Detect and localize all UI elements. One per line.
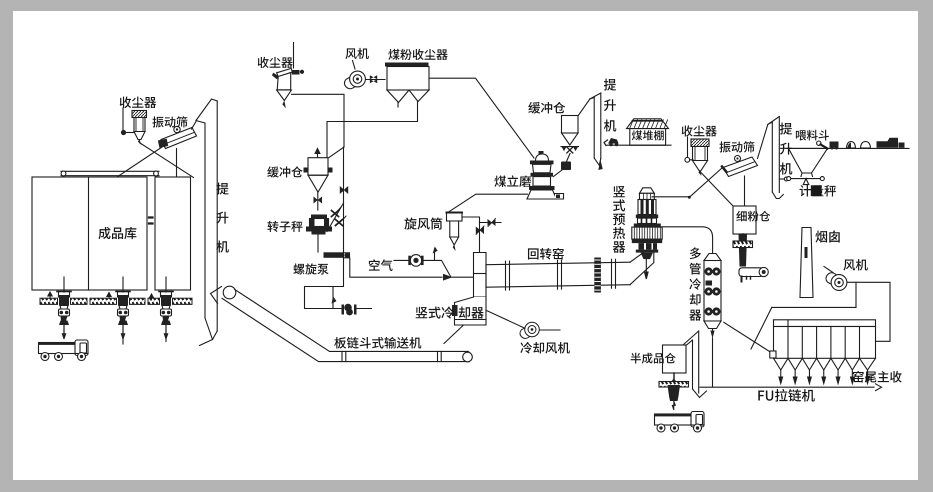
silo top bridge conveyor [61,171,159,175]
truck T2 [655,412,705,433]
cyclone inlet from mill base [447,194,528,213]
MF outlet to mill (right side) [429,78,534,158]
dust collector DC1 [132,111,147,118]
kiln-tail bag filter 窑尾主收 [774,320,876,327]
kiln girth gear [594,258,601,293]
buffer bin 缓冲仓2 [562,116,579,134]
weigh scale 计量秤 [787,178,824,180]
filter inlet box [770,351,776,358]
coal shed 煤堆棚 [627,119,669,129]
dust collector DC3 [691,139,709,147]
screen feed chute from elevator [192,122,197,130]
kiln feed spout+arrow [645,259,649,279]
bypass line with flap valves [343,147,345,253]
vent arrow above bin [315,149,320,158]
vertical preheater 竖式预热器 [640,188,655,194]
bin discharge + screw [742,234,744,239]
truck T3 (dark) [877,138,899,148]
buffer bin 缓冲仓1 [308,158,328,176]
cyclone top outlet to cooler [462,217,480,253]
rotor scale 转子秤 [311,215,327,219]
vibrating screen S2 [723,157,758,177]
chute screen to silo bridge [117,147,162,177]
coal powder bag collector 煤粉收尘器 [385,63,429,67]
CY1 outlet piping [292,94,345,157]
multi-tube cooler 多管冷却器 [704,254,721,261]
silo discharge assembly 1 [57,277,71,339]
coal vertical mill 煤立磨 [536,154,549,161]
duct to multitube cooler [657,227,713,254]
bin outlet valve [317,192,319,210]
elevator E4 [693,331,699,393]
screen support line [176,149,178,177]
semi-product bin 半成品仓 [663,345,687,373]
ground line [788,147,910,149]
silo discharge assembly 3 [159,277,173,339]
F1 outlet valve [366,79,385,81]
air blower 空气 [394,259,409,261]
leader to cooling fan [487,311,526,329]
truck T1 [39,340,89,361]
vertical cooler 竖式冷却器 [474,253,487,298]
chute DC3 to fine bin [701,172,734,207]
shed ground [607,144,671,146]
filter clean-gas duct + fan [848,282,890,341]
pump discharge to cooler [350,258,442,277]
preheater gas line to screen2 [652,196,689,198]
MF piping to buffer bin [397,103,399,108]
bucket elevator E1 (left) [205,101,217,331]
DC1 leader + drain circle [122,108,124,130]
pump air circuit + roots blower [305,258,344,309]
fan F3 [826,273,847,291]
bucket elevator E3 [772,117,779,193]
rotary kiln 回转窑 [486,262,630,287]
feed hopper 喂料斗 [789,148,828,173]
product silo 成品库 [32,177,147,290]
fan F1 [344,71,365,89]
feed chute to mill [567,154,571,162]
duct from filter to ID line [772,282,856,307]
screw pump 螺旋泵 [324,252,344,257]
kiln outlet bend [630,252,654,285]
screen2 underflow to bin [744,176,746,206]
bucket elevator E2 [594,93,601,159]
plate chain bucket conveyor [223,286,236,299]
chimney 烟囱 [800,228,813,298]
chute DC1 to silo bridge [140,143,194,178]
cyclone dust collector CY1 [293,43,295,69]
discharge slide bands [40,298,192,304]
wheel loader icon [608,138,619,144]
small loading icons [817,141,821,145]
vibrating screen S1 [161,128,197,149]
cooler chute to conveyor [444,326,463,344]
cyclone 旋风筒 [447,213,463,222]
fine powder bin 细粉仓 [733,206,756,234]
chute cooler->bag filter [724,322,771,352]
cooling fan 冷却风机 [520,322,539,338]
FU chain conveyor line [700,386,874,388]
silo discharge assembly 2 [116,277,130,339]
bin2 discharge valve [561,146,579,148]
